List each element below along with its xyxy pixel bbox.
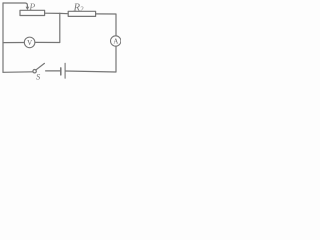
svg-text:A: A	[113, 38, 118, 45]
rheostat P slider arrowhead	[26, 7, 30, 10]
rheostat P body	[20, 10, 45, 15]
wire R2 to top-right corner	[96, 14, 116, 36]
node A junction	[60, 12, 68, 14]
wire top-left to slider arrow	[3, 3, 27, 7]
ammeter A	[111, 36, 121, 46]
svg-text:P: P	[28, 3, 35, 13]
svg-text:V: V	[27, 39, 32, 47]
wire switch to bottom-left corner	[3, 71, 33, 74]
wire rheostat to node A	[45, 12, 60, 14]
resistor R2	[68, 11, 95, 16]
voltmeter branch wire left	[3, 42, 24, 44]
battery short plate	[60, 68, 62, 75]
voltmeter V	[24, 37, 35, 48]
svg-text:R2: R2	[73, 2, 84, 13]
wire battery to switch contact	[46, 70, 61, 72]
switch S pivot	[33, 70, 36, 73]
wire left vertical	[2, 3, 4, 72]
voltmeter branch wire right up to node A	[35, 13, 60, 42]
switch S blade	[36, 63, 44, 69]
battery long plate	[64, 63, 66, 78]
wire ammeter to bottom-right corner	[66, 46, 116, 72]
svg-text:S: S	[36, 72, 41, 82]
